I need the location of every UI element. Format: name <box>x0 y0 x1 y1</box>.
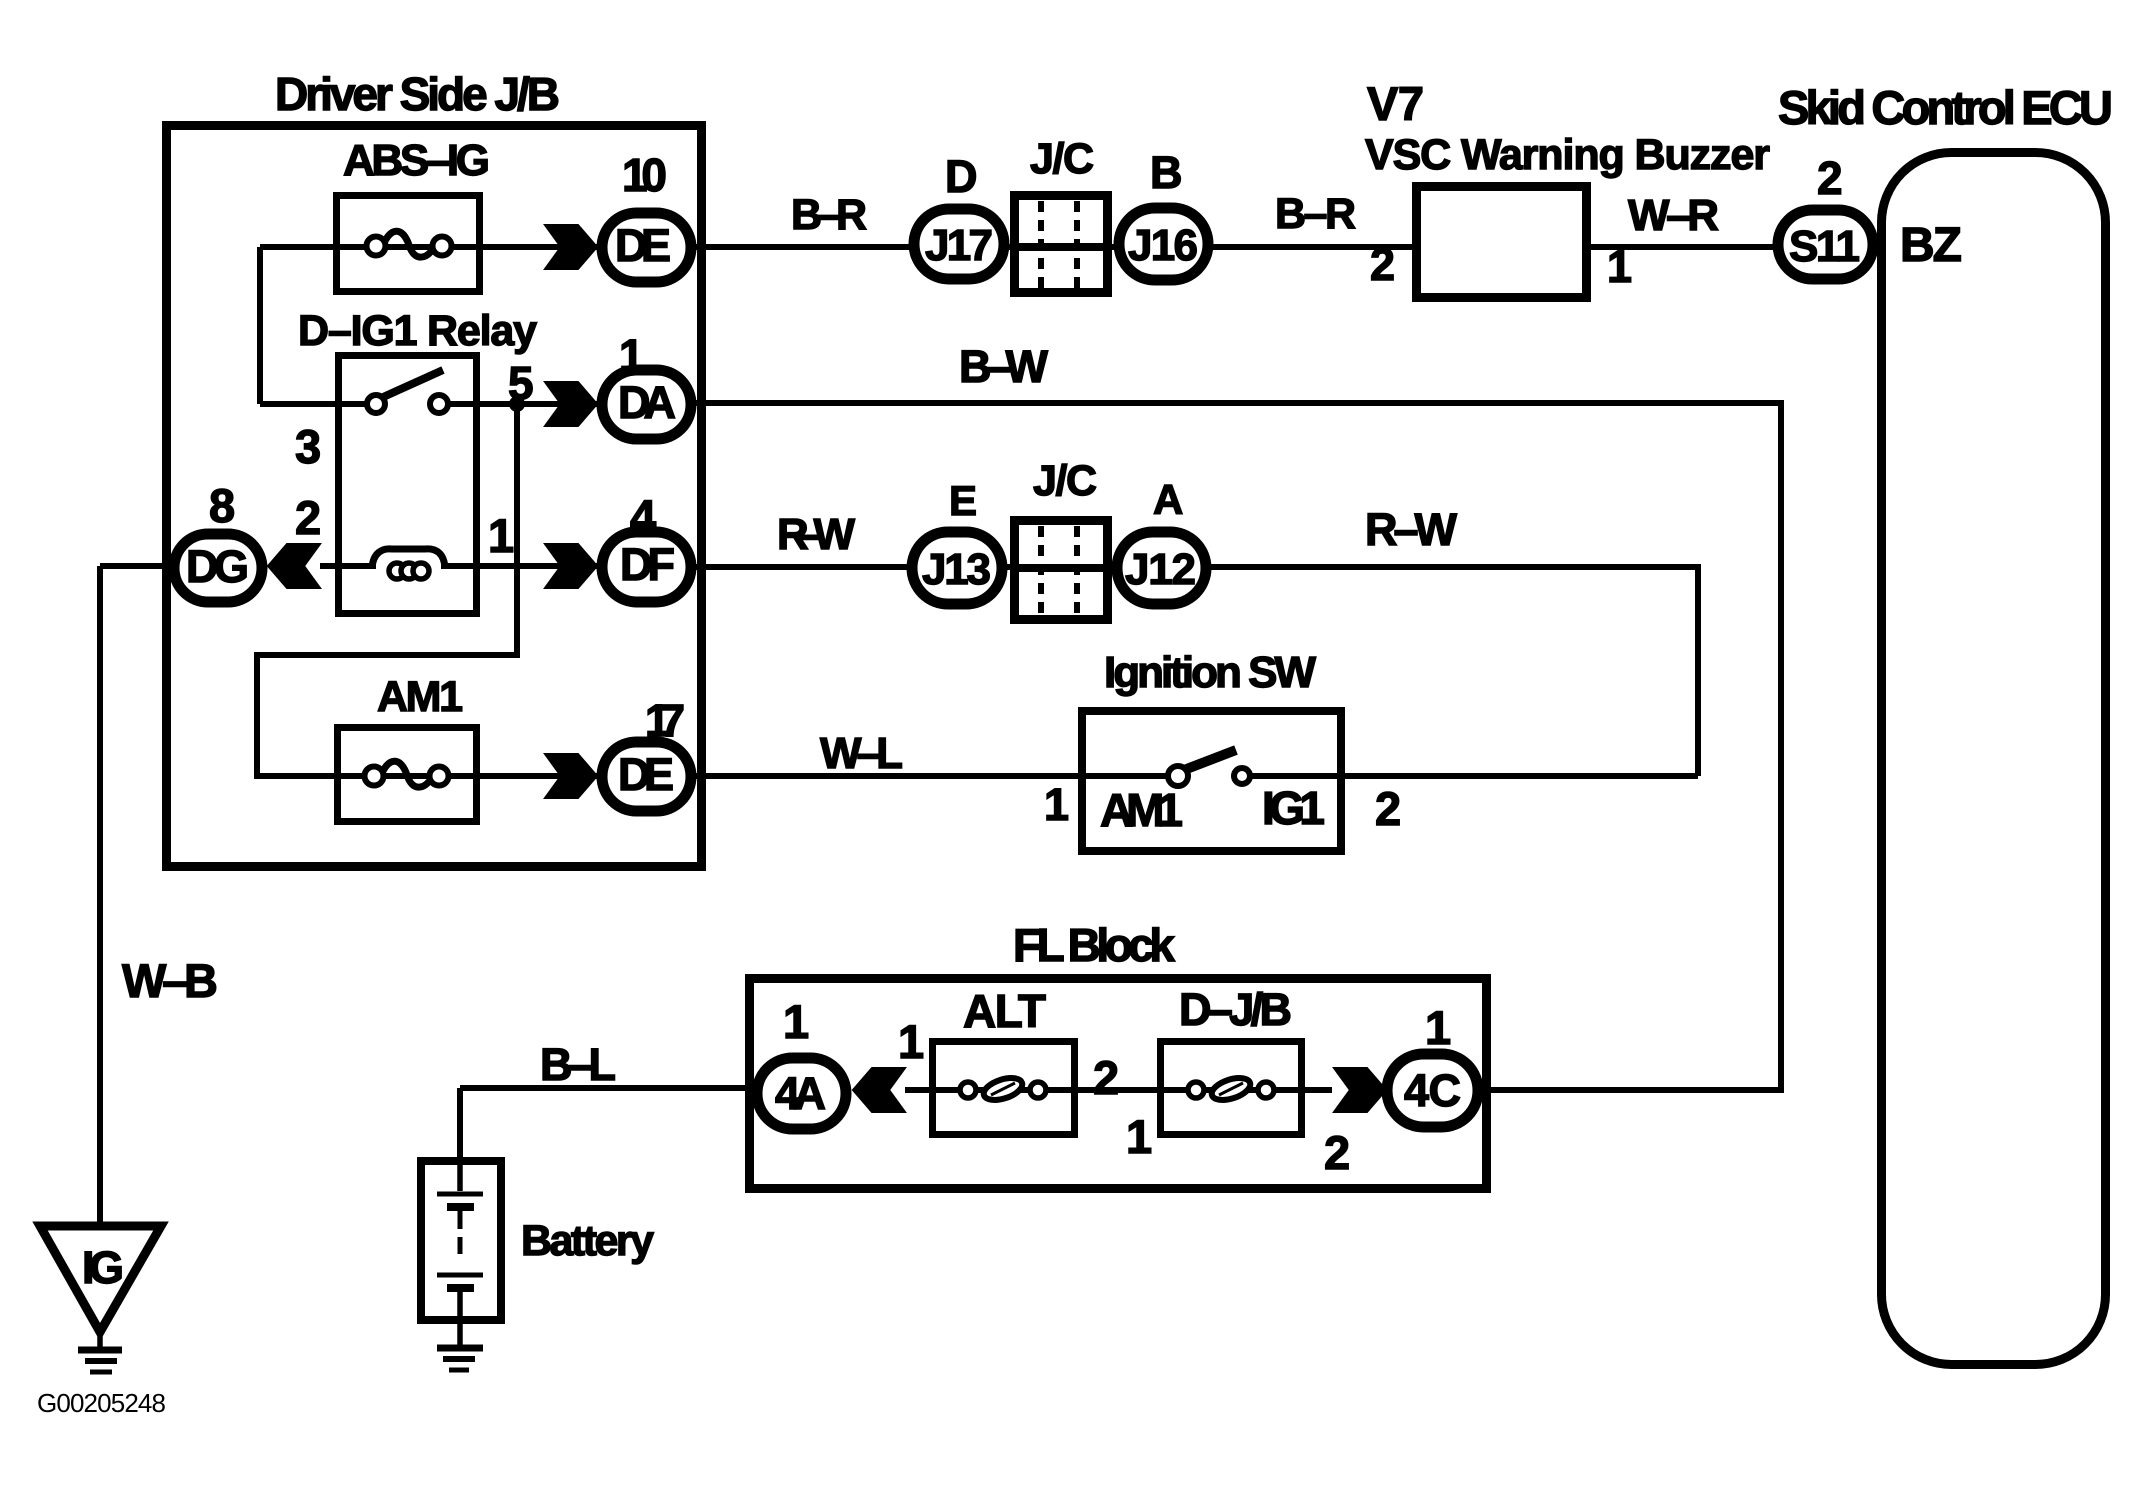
svg-text:2: 2 <box>1817 152 1843 204</box>
svg-text:W–B: W–B <box>122 954 218 1007</box>
svg-text:W–L: W–L <box>820 729 903 778</box>
svg-text:IG1: IG1 <box>1262 782 1325 834</box>
svg-text:ABS–IG: ABS–IG <box>343 136 490 185</box>
svg-text:DE: DE <box>618 749 674 800</box>
svg-text:R–W: R–W <box>1365 504 1458 555</box>
svg-text:4: 4 <box>630 490 656 543</box>
svg-text:J12: J12 <box>1125 545 1196 594</box>
svg-text:AM1: AM1 <box>377 673 463 721</box>
svg-text:Battery: Battery <box>521 1217 654 1265</box>
svg-text:B–W: B–W <box>959 341 1049 392</box>
svg-text:B: B <box>1150 147 1183 198</box>
svg-text:R–W: R–W <box>777 510 855 559</box>
svg-text:5: 5 <box>508 357 534 409</box>
svg-text:B–L: B–L <box>540 1039 616 1090</box>
svg-text:A: A <box>1153 476 1183 523</box>
svg-text:1: 1 <box>619 330 644 381</box>
svg-text:10: 10 <box>622 149 667 201</box>
svg-text:1: 1 <box>1607 241 1632 292</box>
svg-text:AM1: AM1 <box>1100 784 1183 836</box>
svg-text:1: 1 <box>1126 1110 1152 1163</box>
svg-text:FL Block: FL Block <box>1013 919 1175 971</box>
svg-text:DA: DA <box>618 377 676 428</box>
svg-text:4C: 4C <box>1404 1065 1461 1116</box>
svg-text:B–R: B–R <box>791 191 867 239</box>
svg-text:D–J/B: D–J/B <box>1179 984 1292 1035</box>
svg-text:2: 2 <box>1370 239 1395 290</box>
svg-text:DE: DE <box>615 220 671 271</box>
svg-text:VSC Warning Buzzer: VSC Warning Buzzer <box>1365 131 1770 179</box>
svg-text:2: 2 <box>1375 782 1401 835</box>
svg-text:D–IG1 Relay: D–IG1 Relay <box>298 307 537 355</box>
svg-text:J13: J13 <box>922 545 991 594</box>
svg-text:V7: V7 <box>1367 77 1424 130</box>
svg-text:1: 1 <box>783 995 809 1048</box>
svg-text:J/C: J/C <box>1033 457 1097 505</box>
svg-text:J/C: J/C <box>1030 135 1094 183</box>
svg-text:B–R: B–R <box>1275 190 1356 238</box>
svg-text:BZ: BZ <box>1900 219 1962 272</box>
svg-text:1: 1 <box>898 1015 924 1068</box>
svg-text:3: 3 <box>295 420 321 473</box>
svg-text:1: 1 <box>1044 779 1069 830</box>
svg-text:1: 1 <box>1425 1001 1451 1054</box>
svg-text:W–R: W–R <box>1628 191 1719 240</box>
svg-text:DG: DG <box>186 541 249 592</box>
svg-text:IG: IG <box>82 1242 124 1293</box>
svg-text:1: 1 <box>488 509 514 562</box>
svg-text:G00205248: G00205248 <box>37 1388 166 1418</box>
svg-text:8: 8 <box>209 479 235 532</box>
svg-text:2: 2 <box>1093 1051 1119 1104</box>
svg-text:Skid Control ECU: Skid Control ECU <box>1778 81 2113 134</box>
svg-text:E: E <box>949 477 977 524</box>
svg-text:Driver Side J/B: Driver Side J/B <box>275 68 560 120</box>
svg-text:ALT: ALT <box>963 985 1046 1037</box>
svg-text:J16: J16 <box>1128 221 1198 270</box>
svg-text:2: 2 <box>295 491 321 544</box>
svg-text:Ignition SW: Ignition SW <box>1104 648 1316 697</box>
svg-text:DF: DF <box>620 539 675 590</box>
svg-text:D: D <box>945 151 978 202</box>
svg-text:4A: 4A <box>775 1068 826 1119</box>
svg-text:2: 2 <box>1324 1126 1350 1179</box>
svg-text:S11: S11 <box>1789 222 1860 271</box>
svg-text:J17: J17 <box>925 221 993 270</box>
svg-text:17: 17 <box>645 695 685 746</box>
